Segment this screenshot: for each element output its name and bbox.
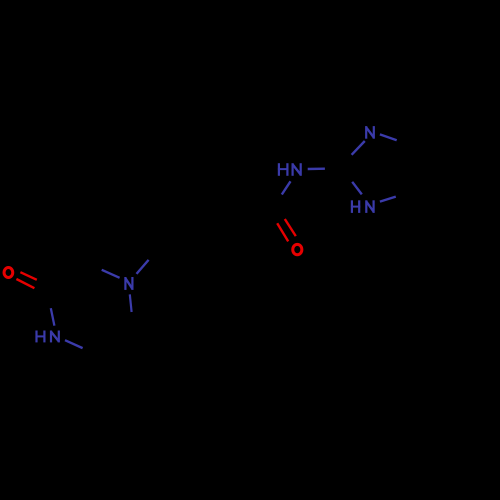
wire N4-CH2 chain bond (nitrogen half) [137, 260, 149, 274]
nitrogen N1' label "HN" (imidazoline NH) [351, 200, 374, 213]
wire N1'-C7a bond (nitrogen half) [380, 197, 396, 202]
oxygen amide O label [293, 244, 302, 254]
oxygen O1 (piperazinone carbonyl oxygen label) [4, 268, 13, 278]
wire amide N-C(=O) bond (nitrogen half) [282, 181, 291, 194]
wire amide C=O double bond left line (oxygen half) [277, 223, 288, 241]
wire amide N-C2' bond (nitrogen half) [308, 167, 325, 170]
wire N3-C3a bond (nitrogen half) [380, 134, 397, 140]
wire amide C=O double bond right line (oxygen half) [285, 219, 296, 236]
nitrogen amide label "HN" [278, 163, 301, 176]
nitrogen N4 label (piperazinone ring N) [125, 277, 132, 290]
wire C2-N1 bond (nitrogen half) [51, 308, 55, 326]
wire C2'-N1' bond (nitrogen half) [352, 182, 362, 195]
wire C3-N4 bond (nitrogen half) [102, 270, 120, 278]
wire C2'-N3 bond (nitrogen half) [352, 141, 365, 155]
nitrogen N3 label (imidazoline ring N) [366, 126, 374, 139]
nitrogen N1 label "HN" (piperazinone NH) [36, 331, 59, 343]
wire N1-C6 bond (nitrogen half) [65, 340, 83, 348]
wire N4-C5 bond (nitrogen half) [130, 294, 132, 312]
wire C2=O1 double bond upper half (oxygen side) [20, 272, 36, 280]
wire C2=O1 double bond lower half (oxygen side) [16, 279, 34, 288]
